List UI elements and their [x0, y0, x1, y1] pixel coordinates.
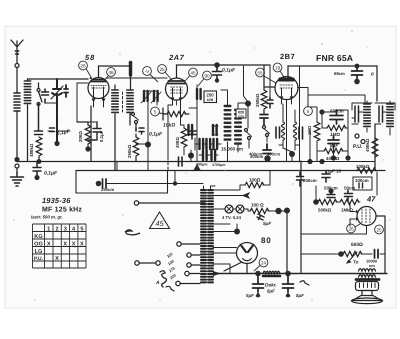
speaker body — [356, 282, 379, 291]
svg-text:MF 125 kHz: MF 125 kHz — [42, 206, 82, 214]
IF transformer T1 secondary — [127, 90, 133, 112]
svg-text:X: X — [72, 241, 76, 247]
cap below — [260, 115, 268, 126]
svg-text:0,1μF: 0,1μF — [149, 132, 163, 138]
resistor 400k horizontal — [324, 148, 343, 153]
cathode cap dark — [279, 144, 299, 146]
tube 58 envelope — [88, 78, 109, 108]
junction dot B+ — [284, 208, 290, 214]
wire plate down — [130, 75, 132, 89]
wave switch 2 — [245, 129, 248, 132]
svg-text:100cm: 100cm — [355, 178, 369, 183]
svg-text:8μF: 8μF — [330, 143, 338, 148]
IFT B wires — [375, 101, 395, 135]
grid cap wire — [99, 66, 130, 78]
svg-text:19: 19 — [275, 65, 281, 70]
svg-text:200Ω: 200Ω — [78, 131, 83, 142]
svg-text:X: X — [55, 256, 59, 262]
svg-text:LG: LG — [35, 249, 43, 255]
svg-text:68cm: 68cm — [334, 71, 345, 76]
svg-text:100Ω: 100Ω — [249, 178, 261, 183]
svg-text:55: 55 — [257, 70, 263, 75]
wires to 80 plates — [213, 247, 237, 249]
svg-text:100 Ω: 100 Ω — [251, 203, 264, 208]
core — [122, 92, 124, 112]
svg-text:400kΩ: 400kΩ — [326, 156, 340, 161]
svg-text:1935-36: 1935-36 — [42, 196, 71, 205]
cap 8uF — [328, 136, 339, 148]
0.1uF cap to ground — [35, 104, 43, 135]
cap 0.1uF osc — [136, 128, 144, 134]
riser x117 — [116, 162, 118, 171]
heater arrow line — [213, 193, 249, 198]
svg-text:250cm: 250cm — [101, 187, 114, 192]
resistor 500k — [318, 199, 337, 204]
wire antenna down — [16, 68, 18, 93]
wire riser — [167, 171, 169, 193]
tube 2A7 envelope — [166, 78, 188, 105]
antenna coil secondary L2 — [24, 81, 30, 103]
svg-text:25: 25 — [159, 67, 165, 72]
svg-text:5μF: 5μF — [263, 221, 271, 226]
svg-text:250cm: 250cm — [303, 178, 317, 183]
IF transformer T1 primary — [112, 90, 118, 112]
cap 680cm — [330, 110, 343, 124]
svg-text:2A7: 2A7 — [168, 53, 185, 62]
AVC branch vertical — [77, 83, 88, 122]
arrow junction at 197 — [194, 164, 201, 170]
tube 2B7 envelope — [275, 77, 298, 105]
svg-text:400kΩ: 400kΩ — [365, 138, 370, 152]
svg-text:1700μm: 1700μm — [212, 163, 225, 167]
IFT can A coil — [364, 104, 370, 126]
wire vertical 299 — [299, 66, 301, 161]
wire bus y170 — [76, 170, 385, 172]
mains link — [135, 261, 139, 265]
IFT can B cap — [379, 106, 383, 122]
wire top B+ bus — [177, 64, 271, 66]
svg-text:cm: cm — [207, 97, 213, 102]
resistor 200ohm vertical — [85, 125, 91, 144]
resistor 250k vertical — [133, 137, 139, 156]
tube 80 envelope — [237, 243, 258, 264]
svg-text:250kΩ: 250kΩ — [127, 144, 132, 158]
cap 250cm left — [297, 172, 304, 186]
svg-text:90: 90 — [204, 73, 210, 78]
svg-text:500kΩ: 500kΩ — [318, 208, 332, 213]
wire screen line — [106, 77, 167, 79]
svg-text:5: 5 — [307, 109, 310, 114]
wire grid line to tube 58 — [57, 78, 88, 80]
arrowhead into transformer — [213, 271, 221, 276]
wire bus y183 — [106, 183, 203, 185]
wire cathode down — [301, 226, 367, 235]
cap dark left — [197, 89, 201, 99]
box 020cm — [236, 109, 246, 118]
IFT can A cap — [355, 106, 359, 122]
cap 250cm on bus — [96, 181, 102, 187]
tube 47 envelope — [350, 202, 376, 226]
svg-text:400Ω: 400Ω — [175, 137, 180, 148]
IF3 coils wavy — [282, 122, 285, 140]
oscillator trimmer caps — [144, 91, 148, 101]
svg-text:5μF: 5μF — [246, 293, 254, 298]
junction dot — [54, 141, 59, 146]
decoupling dot and 0.1uF — [214, 62, 220, 68]
grid resistor 250k left — [261, 90, 267, 109]
cap 500cm — [328, 188, 333, 193]
output transformer — [359, 269, 376, 271]
svg-text:P.U.: P.U. — [353, 144, 363, 150]
wire vertical 270 — [269, 65, 271, 97]
svg-text:45: 45 — [190, 70, 196, 75]
grid wire to top bus — [176, 65, 178, 78]
wire pot left — [301, 253, 338, 255]
svg-text:1MΩ: 1MΩ — [307, 125, 312, 135]
svg-text:58: 58 — [85, 53, 95, 62]
svg-text:c: c — [371, 72, 374, 78]
svg-text:600Ω: 600Ω — [351, 242, 363, 248]
wire bus y193 — [76, 192, 168, 194]
svg-text:0,1μF: 0,1μF — [222, 68, 236, 74]
svg-text:45: 45 — [155, 219, 164, 228]
svg-text:480kΩ: 480kΩ — [29, 143, 34, 157]
electrolytic cap 2 — [285, 271, 291, 277]
padder caps dark cluster — [200, 139, 204, 149]
cathode wire of 58 down to bus — [90, 106, 92, 161]
svg-text:1MkΩ: 1MkΩ — [341, 208, 354, 213]
link squiggle — [125, 230, 140, 235]
svg-text:50cm: 50cm — [344, 186, 355, 191]
svg-text:8μF: 8μF — [296, 293, 304, 298]
IF2 primary coil — [224, 106, 230, 140]
phono link line — [134, 201, 138, 205]
svg-text:P.U.: P.U. — [34, 256, 44, 262]
IFT can B coil — [387, 104, 393, 126]
svg-text:1: 1 — [47, 226, 50, 232]
junction dot — [14, 157, 19, 162]
transformer top wires — [204, 186, 216, 190]
squiggle near bus — [300, 281, 309, 285]
switch 4 — [263, 126, 266, 129]
padder capacitor — [42, 89, 49, 103]
junction dot — [234, 229, 240, 235]
riser x148 — [147, 146, 149, 171]
wire to IF2 — [189, 85, 197, 161]
svg-text:24: 24 — [261, 260, 267, 265]
wire bus — [17, 161, 300, 163]
svg-text:10kΩ: 10kΩ — [163, 123, 175, 129]
bypass caps — [188, 128, 196, 139]
svg-text:0,1μF: 0,1μF — [44, 171, 58, 177]
svg-text:400cm: 400cm — [267, 152, 280, 157]
svg-text:To: To — [353, 260, 359, 265]
wire top bus right — [288, 65, 377, 67]
svg-text:2: 2 — [55, 226, 58, 232]
resistor 100ohm mid — [250, 208, 269, 213]
svg-text:1MΩ: 1MΩ — [330, 132, 340, 137]
padder trimmer — [267, 97, 273, 108]
cap 5uF slanted — [257, 214, 264, 220]
junction dot — [145, 142, 151, 148]
riser x175 — [174, 171, 176, 184]
svg-text:2B7: 2B7 — [280, 52, 295, 61]
caps beside coils — [276, 127, 280, 138]
IFT A wires — [352, 101, 372, 132]
box 100cm — [353, 177, 372, 190]
resistor vertical left — [314, 122, 320, 141]
vertical rails — [300, 161, 302, 273]
wave switch — [132, 113, 135, 116]
svg-text:cm: cm — [369, 263, 375, 268]
svg-text:3: 3 — [64, 226, 67, 232]
junction dot on bus — [37, 159, 42, 164]
main DC bus bottom — [213, 273, 387, 275]
series cap on bus — [179, 157, 183, 166]
pilot lamps — [225, 205, 233, 213]
IF2 secondary coil — [235, 110, 241, 144]
dashed riser — [167, 150, 169, 170]
wire right drop — [375, 66, 377, 171]
svg-text:25: 25 — [376, 227, 382, 232]
wire left drop — [75, 171, 77, 194]
cap 0.1uF right — [88, 122, 101, 140]
svg-text:80: 80 — [261, 236, 272, 245]
cap 1uF — [322, 171, 330, 183]
svg-text:100kΩ: 100kΩ — [356, 164, 370, 169]
resistor 1M — [340, 199, 359, 204]
svg-text:26: 26 — [348, 226, 354, 231]
svg-text:250kΩ: 250kΩ — [255, 93, 260, 107]
trimmer cap c — [355, 64, 360, 69]
svg-text:46: 46 — [108, 70, 114, 75]
resistor 100k — [357, 168, 376, 173]
antenna — [11, 40, 23, 68]
junction dots bottom — [307, 159, 312, 164]
antenna coil L1 — [14, 92, 20, 158]
junction dot — [319, 109, 324, 114]
wire cap row — [45, 103, 70, 143]
svg-text:680cm: 680cm — [330, 109, 344, 114]
2B7 cathode drop — [286, 100, 288, 162]
flexible wire squiggles — [160, 271, 167, 287]
svg-text:4 TV. 0,24: 4 TV. 0,24 — [222, 215, 242, 220]
tuning gang capacitor C1 — [51, 79, 68, 143]
svg-text:5: 5 — [80, 226, 83, 232]
svg-text:1μF 16: 1μF 16 — [327, 169, 341, 174]
0.1uF cap lower-left — [33, 162, 41, 176]
svg-text:lastr. 500 m. gr.: lastr. 500 m. gr. — [31, 215, 63, 220]
svg-text:0,1μF: 0,1μF — [99, 130, 104, 142]
svg-text:400cm: 400cm — [250, 154, 263, 159]
junction dot — [313, 199, 319, 205]
svg-text:500cm: 500cm — [324, 186, 338, 191]
svg-text:KG: KG — [34, 234, 42, 240]
svg-text:A: A — [155, 280, 160, 286]
paper speckle — [13, 30, 390, 300]
top small caps — [189, 125, 193, 135]
svg-text:FNR 65A: FNR 65A — [316, 53, 353, 63]
svg-text:X: X — [47, 241, 51, 247]
speaker cone — [353, 296, 382, 301]
box 250cm — [204, 91, 217, 103]
svg-text:47: 47 — [366, 195, 376, 204]
ground — [11, 172, 24, 186]
resistor 100ohm top — [245, 182, 264, 187]
svg-text:OG: OG — [34, 241, 43, 247]
cap dark — [263, 144, 271, 154]
svg-text:15.000 cm: 15.000 cm — [221, 147, 243, 152]
grid cap blob — [129, 63, 132, 75]
P.U. jack — [355, 134, 359, 138]
resistor 1M horizontal — [327, 125, 346, 130]
svg-text:26: 26 — [80, 63, 86, 68]
potentiometer 600ohm — [338, 251, 344, 257]
power transformer windings — [201, 190, 213, 282]
voltage selector contacts — [177, 242, 181, 246]
wire from top bus to osc — [244, 66, 249, 102]
junction dot — [245, 101, 251, 107]
svg-text:5: 5 — [154, 109, 157, 114]
filter choke — [263, 271, 280, 273]
cap 50cm — [345, 190, 353, 201]
svg-text:8μF: 8μF — [267, 289, 275, 294]
wire plate right — [298, 88, 366, 108]
rectifier output — [224, 262, 247, 274]
band switch S1 — [37, 89, 42, 106]
wire top of input box — [28, 79, 58, 88]
wire plate to right rail — [376, 216, 385, 273]
resistor 480k — [36, 137, 42, 156]
svg-text:cm: cm — [238, 115, 244, 119]
svg-text:X: X — [80, 241, 84, 247]
resistor 400ohm cathode — [181, 128, 187, 147]
svg-text:X: X — [63, 241, 67, 247]
electrolytic cap 1 — [255, 271, 261, 277]
wire screen — [376, 172, 378, 195]
wires tube bottom — [168, 105, 173, 160]
svg-text:400μm: 400μm — [196, 163, 207, 167]
osc grid resistor 10k — [167, 111, 186, 116]
resistor 400k vertical right — [372, 138, 378, 157]
